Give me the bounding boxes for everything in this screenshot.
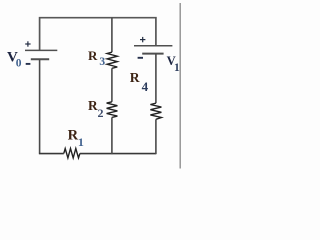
svg-text:1: 1 <box>174 62 180 74</box>
wire bottom rail left of R1 <box>39 153 64 155</box>
V1 minus sign <box>138 57 143 59</box>
frame line right edge <box>179 3 181 169</box>
V0 minus sign <box>26 63 31 65</box>
battery V0 <box>25 50 57 59</box>
svg-text:R: R <box>88 98 98 113</box>
svg-text:2: 2 <box>98 106 104 120</box>
battery V1 <box>134 46 172 54</box>
wire right branch between V1 and R4 <box>155 54 157 104</box>
wire right branch below R4 <box>155 119 157 154</box>
resistor R3 <box>107 52 117 68</box>
wire bottom rail right of R1 <box>80 153 156 155</box>
wire top rail with left and right corner drops <box>40 18 156 51</box>
resistor R2 <box>107 102 118 118</box>
svg-text:4: 4 <box>142 79 149 94</box>
svg-text:0: 0 <box>16 57 22 69</box>
svg-text:R: R <box>130 70 140 85</box>
wire middle branch below R2 <box>111 117 113 154</box>
svg-text:3: 3 <box>99 56 105 68</box>
svg-text:1: 1 <box>78 135 84 149</box>
V0 plus sign <box>25 41 30 46</box>
resistor R1 <box>64 149 80 158</box>
V1 plus sign <box>140 37 145 42</box>
wire left branch below battery <box>39 59 41 153</box>
resistor R4 <box>150 103 161 119</box>
wire middle branch between R3 and R2 <box>111 68 113 102</box>
wire middle branch top <box>111 18 113 53</box>
svg-text:R: R <box>88 48 98 63</box>
